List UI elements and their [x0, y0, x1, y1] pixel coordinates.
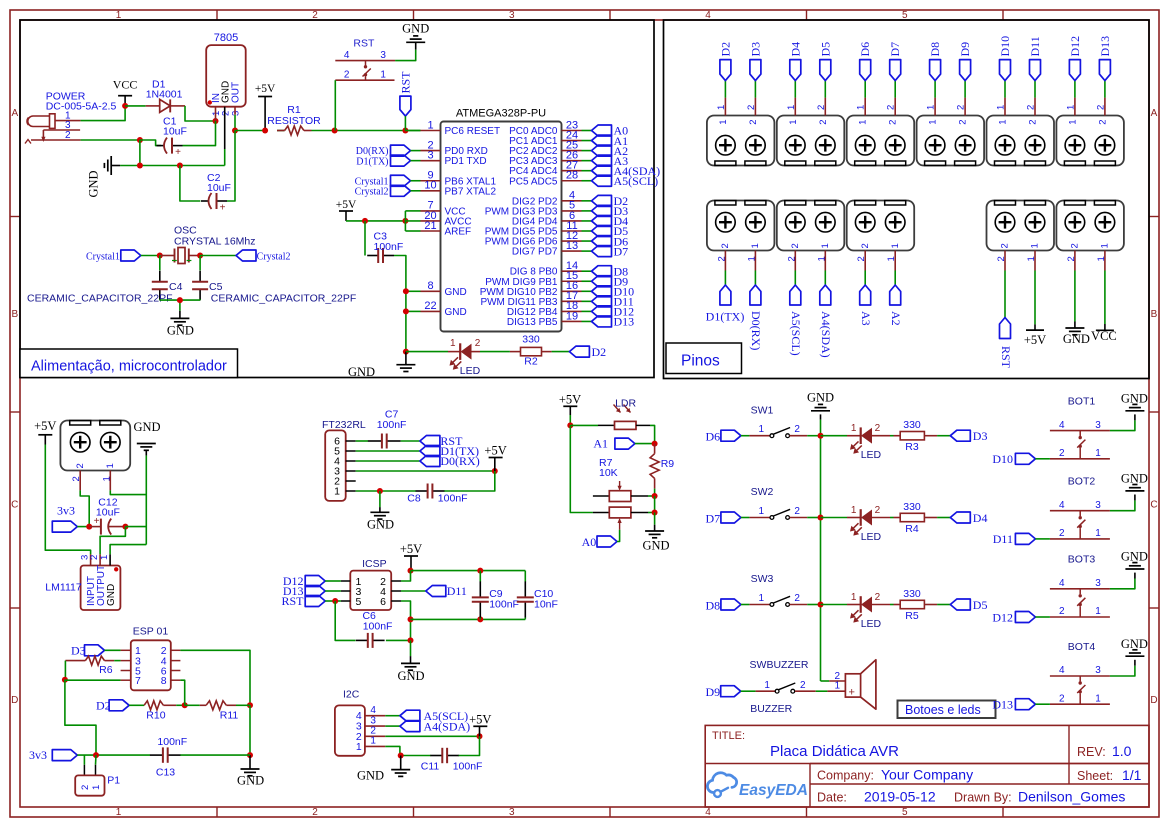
- svg-text:2: 2: [996, 256, 1007, 261]
- wire pin7 node down to P1: [65, 680, 96, 755]
- svg-text:2: 2: [875, 423, 881, 434]
- MCU pin 3 PD1 TXD: [421, 149, 487, 167]
- resistor R10: [144, 701, 185, 722]
- svg-text:13: 13: [566, 240, 578, 252]
- net flag D3: [937, 429, 987, 443]
- svg-text:2: 2: [80, 785, 91, 790]
- svg-text:1: 1: [450, 338, 456, 349]
- connector block bottom D1(TX)/D0(RX): [707, 201, 775, 251]
- net flag D6 at MCU: [582, 234, 629, 248]
- junction mid rail left: [408, 616, 414, 622]
- potentiometer R7 upper element: [593, 481, 655, 502]
- svg-text:RST: RST: [281, 594, 304, 608]
- resistor R11: [185, 701, 250, 722]
- power flag +5V (MCU): [336, 199, 357, 221]
- svg-text:EasyEDA: EasyEDA: [739, 782, 808, 799]
- svg-text:PB7 XTAL2: PB7 XTAL2: [445, 186, 497, 197]
- svg-text:D7: D7: [706, 511, 721, 525]
- net flag D10 at MCU: [582, 285, 635, 299]
- svg-text:D2: D2: [718, 42, 732, 57]
- svg-text:2: 2: [1070, 243, 1081, 248]
- wire RST sw pin3 to GND: [395, 42, 416, 60]
- connector I2C body: [335, 688, 365, 756]
- wire C3 to GND pins: [394, 256, 421, 352]
- pin stub and flag D8: [926, 42, 943, 125]
- svg-text:1: 1: [1067, 120, 1078, 125]
- junction gnd rail row 2: [818, 515, 824, 521]
- label OSC CRYSTAL 16Mhz: [174, 225, 256, 248]
- resistor R2 330: [510, 334, 552, 368]
- svg-text:PC6 RESET: PC6 RESET: [445, 126, 501, 137]
- block pin2 stub: [79, 471, 81, 491]
- svg-text:RST: RST: [399, 71, 413, 94]
- diode D1 1N4001: [146, 99, 185, 112]
- title text Placa Didatica AVR: [712, 730, 899, 760]
- power flag +5V (LDR): [559, 392, 581, 425]
- capacitor C9 100nF: [472, 571, 519, 620]
- junction C9 top: [477, 568, 483, 574]
- svg-text:GND: GND: [642, 539, 669, 553]
- svg-text:R3: R3: [905, 441, 919, 453]
- net flag D7 at MCU: [582, 244, 629, 258]
- wire R6 to pin7 node: [64, 661, 66, 680]
- connector block bottom GND/VCC: [1056, 201, 1124, 251]
- svg-text:GND: GND: [237, 773, 264, 787]
- svg-text:330: 330: [903, 588, 921, 600]
- power flag +5V (I2C): [469, 712, 491, 736]
- svg-text:GND: GND: [445, 287, 467, 298]
- svg-text:1: 1: [746, 256, 757, 261]
- svg-text:GND: GND: [133, 420, 160, 434]
- MCU pin 13 DIG7 PD7: [512, 240, 582, 258]
- junction gnd FT232: [377, 488, 383, 494]
- MCU pin 28 PC5 ADC5: [509, 170, 581, 188]
- svg-text:1: 1: [1030, 243, 1041, 248]
- svg-text:2: 2: [1059, 448, 1065, 459]
- net flag D9: [706, 685, 756, 699]
- svg-text:ESP 01: ESP 01: [133, 626, 169, 638]
- svg-text:1: 1: [356, 741, 362, 753]
- wire MCU pin1 stub join: [405, 130, 420, 132]
- svg-text:DIG7 PD7: DIG7 PD7: [512, 247, 558, 258]
- svg-text:2: 2: [856, 256, 867, 261]
- MCU pin 27 PC4 ADC4: [509, 160, 581, 178]
- svg-text:A: A: [11, 108, 18, 119]
- junction +5V LDR: [567, 422, 573, 428]
- svg-text:D1(TX): D1(TX): [356, 156, 388, 167]
- svg-text:1.0: 1.0: [1112, 743, 1132, 759]
- pin stub and flag D7: [886, 42, 903, 125]
- wire VCC node to D1: [125, 105, 146, 107]
- wire pin3 to A4 flag: [385, 725, 400, 727]
- svg-text:Your Company: Your Company: [881, 767, 973, 783]
- svg-text:REV:: REV:: [1077, 745, 1106, 759]
- net flag D5: [937, 598, 987, 612]
- svg-text:D2: D2: [592, 345, 607, 359]
- svg-text:2: 2: [800, 680, 806, 691]
- label D1 1N4001: [146, 79, 183, 101]
- junction at VCC node: [122, 103, 128, 109]
- net flag D13 (BOT4): [992, 698, 1050, 712]
- svg-text:GND: GND: [1121, 550, 1148, 564]
- label C12 10uF: [96, 496, 120, 518]
- wire R9 gnd node: [654, 496, 656, 513]
- svg-text:3: 3: [1095, 420, 1101, 431]
- power flag VCC: [113, 78, 138, 106]
- capacitor C1 10uF: [157, 121, 216, 158]
- svg-text:D4: D4: [973, 511, 988, 525]
- connector block bottom A3/A2: [847, 201, 915, 251]
- svg-text:22: 22: [424, 300, 436, 312]
- svg-text:VCC: VCC: [113, 78, 138, 92]
- label C1 10uF: [163, 116, 187, 138]
- MCU pin 20 AVCC: [421, 210, 472, 228]
- svg-text:Alimentação, microcontrolador: Alimentação, microcontrolador: [31, 359, 227, 375]
- junction 7805 input node: [213, 118, 219, 124]
- svg-text:Sheet:: Sheet:: [1077, 769, 1113, 783]
- svg-text:4: 4: [370, 705, 376, 716]
- date field: [817, 789, 1125, 805]
- svg-text:2: 2: [794, 593, 800, 604]
- svg-text:3v3: 3v3: [57, 504, 75, 518]
- svg-text:D13: D13: [614, 315, 635, 329]
- ground symbol GND (I2C): [357, 756, 410, 783]
- pin stub and VCC (pinos): [1091, 243, 1117, 343]
- svg-text:C13: C13: [156, 767, 175, 779]
- net flag RST (ICSP): [281, 594, 340, 608]
- wire block pin2 to 3v3 node: [80, 490, 89, 526]
- connector block 3v3/GND output: [60, 421, 130, 471]
- net flag A0 at MCU: [582, 124, 629, 138]
- ground symbol GND (LDR): [642, 513, 669, 553]
- svg-text:8: 8: [427, 280, 433, 292]
- svg-text:2: 2: [1059, 528, 1065, 539]
- MCU pin 24 PC1 ADC1: [509, 129, 581, 147]
- svg-text:8: 8: [161, 675, 167, 687]
- MCU pin 12 PWM DIG6 PD6: [485, 230, 582, 248]
- junction LED gnd node: [403, 349, 409, 355]
- svg-text:2: 2: [790, 243, 801, 248]
- svg-text:BUZZER: BUZZER: [750, 703, 792, 715]
- power flag +5V (7805 out): [255, 83, 276, 131]
- net flag RST (FT232): [420, 434, 463, 448]
- net flag D0(RX) (FT232): [420, 454, 480, 468]
- svg-text:PC5 ADC5: PC5 ADC5: [509, 176, 558, 187]
- pin stub and flag D3: [746, 42, 763, 125]
- svg-text:C11: C11: [421, 761, 440, 773]
- svg-text:BOT4: BOT4: [1068, 641, 1096, 653]
- svg-text:A0: A0: [582, 535, 597, 549]
- pin stub and flag D10: [996, 36, 1013, 125]
- svg-text:R4: R4: [905, 523, 919, 535]
- svg-text:GND: GND: [402, 21, 429, 35]
- wire C3 branch: [364, 221, 366, 256]
- svg-text:1: 1: [1095, 528, 1101, 539]
- net flag A4(SDA) (I2C): [400, 719, 470, 733]
- svg-text:+5V: +5V: [336, 199, 357, 211]
- svg-text:D0(RX): D0(RX): [440, 454, 479, 468]
- svg-text:C4: C4: [169, 281, 183, 293]
- svg-text:R9: R9: [661, 458, 675, 470]
- net flag D8: [706, 598, 750, 612]
- svg-text:GND: GND: [1063, 332, 1090, 346]
- power flag +5V (ICSP): [400, 542, 422, 571]
- pushbutton RST: [335, 37, 395, 80]
- svg-text:D3: D3: [973, 429, 988, 443]
- svg-text:1: 1: [926, 105, 937, 110]
- pushbutton BOT3: [1050, 554, 1110, 618]
- svg-text:Botoes e leds: Botoes e leds: [905, 703, 981, 717]
- svg-text:1: 1: [996, 105, 1007, 110]
- svg-text:D3: D3: [748, 42, 762, 57]
- svg-text:FT232RL: FT232RL: [322, 419, 366, 431]
- svg-text:1: 1: [1026, 256, 1037, 261]
- svg-text:ICSP: ICSP: [362, 558, 387, 570]
- svg-text:100nF: 100nF: [374, 241, 404, 253]
- svg-text:C8: C8: [407, 493, 421, 505]
- svg-text:D9: D9: [958, 42, 972, 57]
- junction crystal right: [197, 253, 203, 259]
- svg-text:10uF: 10uF: [163, 126, 187, 138]
- svg-text:GND: GND: [445, 307, 467, 318]
- svg-text:RESISTOR: RESISTOR: [267, 115, 321, 127]
- svg-text:AREF: AREF: [445, 227, 472, 238]
- LED D? power indicator: [448, 338, 481, 377]
- svg-text:3v3: 3v3: [29, 748, 47, 762]
- svg-text:D11: D11: [1028, 36, 1042, 56]
- connector ICSP body: [350, 558, 391, 610]
- svg-text:SWBUZZER: SWBUZZER: [750, 659, 809, 671]
- svg-text:2: 2: [1097, 120, 1108, 125]
- pin stub and flag A5(SCL): [786, 243, 803, 355]
- svg-text:GND: GND: [807, 391, 834, 405]
- svg-text:P1: P1: [107, 775, 120, 787]
- svg-text:Pinos: Pinos: [681, 353, 720, 370]
- svg-text:+5V: +5V: [34, 419, 56, 433]
- I2C pin 2: [356, 726, 385, 743]
- ESP01 pins 3/4: [121, 655, 181, 667]
- junction gnd rail C2 branch: [177, 163, 183, 169]
- svg-text:A1: A1: [593, 437, 608, 451]
- wire C13 to gnd: [180, 754, 250, 756]
- regulator U? 7805: [206, 32, 246, 116]
- ground symbol GND (BOT4): [1121, 637, 1148, 656]
- junction 3v3 cap left: [86, 524, 92, 530]
- capacitor C12 10uF (reversed): [89, 516, 125, 535]
- junction +5V FT232: [492, 468, 498, 474]
- svg-text:1: 1: [886, 256, 897, 261]
- regulator LM1117: [45, 554, 120, 610]
- net flag Crystal1 at MCU: [355, 175, 421, 187]
- svg-text:3: 3: [427, 149, 433, 161]
- pin stub and +5V (pinos): [1024, 243, 1046, 347]
- svg-text:2: 2: [746, 105, 757, 110]
- svg-text:C: C: [1150, 500, 1157, 511]
- wire pin4 to D0(RX) flag: [356, 460, 420, 462]
- section box: Pinos panel: [664, 20, 1150, 379]
- svg-text:1: 1: [380, 70, 386, 81]
- net flag A5(SCL) (I2C): [400, 709, 468, 723]
- svg-text:100nF: 100nF: [363, 621, 393, 633]
- FT232RL pin 4: [334, 456, 356, 468]
- label R7 10K: [599, 457, 618, 479]
- junction C9 bottom: [477, 616, 483, 622]
- ESP01 pins 5/6: [121, 665, 181, 677]
- svg-text:R2: R2: [524, 356, 538, 368]
- svg-text:1: 1: [1065, 105, 1076, 110]
- svg-text:+5V: +5V: [255, 83, 276, 95]
- svg-text:4: 4: [1059, 420, 1065, 431]
- net flag A4(SDA) at MCU: [582, 164, 661, 178]
- LDR symbol: [570, 398, 654, 444]
- svg-text:GND: GND: [167, 324, 194, 338]
- label C2 10uF: [207, 172, 231, 194]
- svg-text:1: 1: [856, 105, 867, 110]
- connector block top D8/D9: [917, 116, 985, 166]
- svg-text:2: 2: [1000, 243, 1011, 248]
- ground symbol GND (ICSP): [397, 640, 424, 683]
- net flag D3 (ESP): [71, 644, 121, 658]
- svg-text:Crystal2: Crystal2: [355, 186, 389, 197]
- svg-text:1: 1: [759, 593, 765, 604]
- svg-text:GND: GND: [106, 584, 117, 606]
- net flag D4 at MCU: [582, 214, 629, 228]
- MCU pin 2 PD0 RXD: [421, 139, 488, 157]
- LED 3: [821, 592, 891, 630]
- svg-text:VCC: VCC: [1091, 329, 1117, 343]
- net flag RST (vertical): [399, 71, 413, 131]
- net flag D11 (BOT2): [993, 532, 1050, 546]
- svg-text:+: +: [175, 147, 181, 158]
- svg-text:2: 2: [860, 243, 871, 248]
- FT232RL pin 1: [334, 486, 356, 498]
- I2C pin 4: [356, 705, 385, 722]
- junction R11 right: [247, 702, 253, 708]
- MCU pin 21 AREF: [421, 220, 472, 238]
- svg-text:D5: D5: [973, 598, 988, 612]
- svg-text:LED: LED: [460, 365, 481, 377]
- svg-text:LED: LED: [861, 618, 882, 630]
- junction crystal gnd: [177, 297, 183, 303]
- svg-text:GND: GND: [397, 669, 424, 683]
- svg-text:2: 2: [816, 105, 827, 110]
- ground symbol GND (FT232): [367, 491, 394, 532]
- wire C4 C5 bottom rail: [160, 300, 200, 311]
- MCU pin 16 PWM DIG10 PB2: [480, 280, 582, 298]
- svg-text:3: 3: [509, 807, 515, 818]
- svg-text:100nF: 100nF: [438, 493, 468, 505]
- svg-text:LM1117: LM1117: [45, 582, 82, 594]
- wire R1 to MCU pin1 (reset rail): [312, 130, 421, 132]
- svg-text:2: 2: [748, 120, 759, 125]
- MCU pin 7 VCC: [421, 200, 466, 218]
- label R1 RESISTOR: [267, 104, 321, 127]
- junction reset rail / RST flag: [402, 128, 408, 134]
- junction reset rail / RST switch: [332, 128, 338, 134]
- wire pin2 to gnd rail: [180, 650, 250, 705]
- svg-text:2: 2: [475, 338, 481, 349]
- svg-text:2: 2: [956, 105, 967, 110]
- svg-text:OUT: OUT: [231, 82, 242, 103]
- block pin1 number: [101, 463, 116, 481]
- net flag D3 at MCU: [582, 204, 629, 218]
- wire C7 to RST flag: [401, 440, 420, 442]
- svg-text:4: 4: [705, 807, 711, 818]
- pushbutton BOT4: [1050, 641, 1110, 705]
- svg-text:3: 3: [1095, 500, 1101, 511]
- svg-text:LED: LED: [861, 531, 882, 543]
- pin stub and flag A2: [886, 243, 903, 325]
- wire pin4 to D11 flag: [401, 590, 426, 592]
- svg-text:1: 1: [1096, 256, 1107, 261]
- wire pin2 to +5V: [385, 735, 479, 737]
- junction pot1 right: [652, 493, 658, 499]
- ground symbol GND (BOT1): [1121, 392, 1148, 411]
- wire pin6 to C7: [356, 440, 368, 442]
- svg-text:B: B: [11, 309, 18, 320]
- svg-text:D8: D8: [928, 42, 942, 57]
- MCU pin 23 PC0 ADC0: [509, 119, 581, 137]
- MCU pin 8 GND: [421, 280, 467, 298]
- junction AVCC: [402, 218, 408, 224]
- pin stub and flag A3: [856, 243, 873, 325]
- capacitor C7 100nF: [368, 409, 407, 449]
- wire pin2 to +5V: [401, 571, 411, 581]
- ground symbol GND (BOT3): [1121, 550, 1148, 569]
- LED 2: [821, 505, 891, 543]
- wire pin5 branch to C6: [335, 601, 355, 640]
- capacitor C2 10uF: [201, 131, 235, 214]
- MCU pin 10 PB7 XTAL2: [421, 180, 497, 198]
- svg-text:CERAMIC_CAPACITOR_22PF: CERAMIC_CAPACITOR_22PF: [211, 293, 356, 305]
- svg-text:2: 2: [818, 120, 829, 125]
- net flag A2 at MCU: [582, 144, 629, 158]
- svg-text:SW3: SW3: [751, 573, 774, 585]
- svg-text:10nF: 10nF: [534, 598, 558, 610]
- pin stub and flag D0(RX): [746, 243, 763, 350]
- rev field: [1077, 743, 1132, 759]
- svg-text:RST: RST: [353, 37, 375, 49]
- svg-text:1: 1: [764, 680, 770, 691]
- svg-text:2: 2: [1059, 606, 1065, 617]
- capacitor C8 100nF: [407, 484, 467, 505]
- svg-text:Denilson_Gomes: Denilson_Gomes: [1018, 789, 1125, 805]
- svg-text:2: 2: [344, 70, 350, 81]
- svg-text:R11: R11: [220, 710, 239, 722]
- svg-text:7805: 7805: [214, 32, 238, 44]
- wire mid rail: [411, 618, 526, 620]
- net flag D13 at MCU: [582, 315, 635, 329]
- svg-text:D: D: [1150, 695, 1157, 706]
- svg-text:1: 1: [1095, 693, 1101, 704]
- svg-text:D11: D11: [993, 532, 1013, 546]
- junction +5V ICSP: [408, 568, 414, 574]
- net flag D8 at MCU: [582, 264, 629, 278]
- svg-text:D1(TX): D1(TX): [706, 310, 745, 324]
- MCU pin 11 PWM DIG5 PD5: [485, 220, 582, 238]
- svg-text:I2C: I2C: [343, 688, 360, 700]
- 7805 pin1 stub: [215, 107, 217, 121]
- gnd rail (switches): [820, 420, 822, 681]
- ICSP pins 1/2: [341, 576, 401, 588]
- net flag D1(TX) at MCU: [356, 155, 420, 167]
- wire pin7: [65, 679, 121, 681]
- svg-text:D11: D11: [447, 584, 467, 598]
- svg-text:+5V: +5V: [484, 444, 506, 458]
- svg-text:1: 1: [334, 486, 340, 498]
- ESP01 pins 7/8: [121, 675, 181, 687]
- wire pin3 to +5V: [356, 470, 495, 472]
